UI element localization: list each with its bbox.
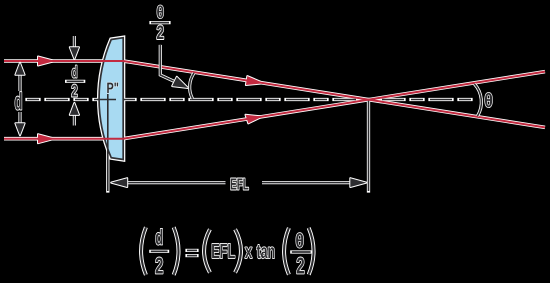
formula: EFL <box>211 240 235 263</box>
label d (of d/2 fraction) <box>71 64 77 82</box>
svg-text:2: 2 <box>156 22 164 44</box>
svg-text:θ: θ <box>484 90 493 112</box>
formula: fraction bar d/2 <box>151 250 168 253</box>
label 2 (of d/2 fraction) <box>71 81 77 100</box>
white halo layer (masked to outside of lens) <box>4 38 545 191</box>
formula: equals sign <box>187 250 197 255</box>
focal point drop line <box>368 101 370 192</box>
d dimension arrow down <box>15 112 24 135</box>
red arrowhead on top-left ray <box>38 57 55 66</box>
formula: d <box>155 226 163 250</box>
P'' label inside lens (no halo, on blue) <box>107 80 119 97</box>
svg-text:tan: tan <box>257 241 276 263</box>
svg-text:2: 2 <box>71 81 77 100</box>
red arrowhead on bottom refracted ray <box>246 115 263 124</box>
formula: right paren of (d/2) <box>174 227 179 275</box>
svg-text:x: x <box>245 241 252 263</box>
formula: left paren of (EFL) <box>204 229 210 272</box>
theta/2 label: 2 <box>156 22 164 44</box>
svg-text:EFL: EFL <box>230 176 249 193</box>
formula: left big paren <box>141 227 146 275</box>
theta/2 fraction bar <box>151 21 169 24</box>
halo: principal plane line <box>106 94 109 191</box>
d/2 dimension upper arrow (pointing down at top ray) <box>70 36 79 59</box>
d dimension arrow up <box>15 63 24 91</box>
halo: top ray <box>4 61 545 127</box>
formula: 2 <box>155 252 163 278</box>
svg-text:d: d <box>155 226 163 250</box>
svg-text:EFL: EFL <box>211 240 235 263</box>
red arrowhead on top refracted ray <box>246 76 264 85</box>
halo: optical axis <box>27 98 473 101</box>
svg-text:P": P" <box>107 80 119 97</box>
EFL dimension line left segment + left arrowhead <box>111 178 225 187</box>
EFL dimension line right segment + right arrowhead <box>262 178 366 187</box>
theta/2 top label: theta <box>157 2 165 22</box>
formula: x <box>245 241 252 263</box>
svg-text:d: d <box>71 64 77 82</box>
svg-text:2: 2 <box>155 252 163 278</box>
formula: tan <box>257 241 276 263</box>
halo: lens outline <box>99 38 123 160</box>
lens U1 (plano-convex, flat side right) <box>99 38 123 160</box>
formula: left paren of (theta/2) <box>284 228 289 275</box>
ray top (red) <box>4 61 545 127</box>
svg-text:d: d <box>14 89 22 116</box>
d/2 dimension lower arrow (pointing up at axis) <box>70 103 79 126</box>
theta/2 leader line with arrow <box>160 45 188 88</box>
red arrowhead on bottom-left ray <box>38 134 55 143</box>
fraction bar of d/2 <box>67 80 84 83</box>
formula: fraction bar theta/2 <box>292 250 311 253</box>
svg-text:θ: θ <box>157 2 165 22</box>
EFL label <box>230 176 249 193</box>
formula: right paren of (EFL) <box>235 229 241 272</box>
halo: bottom ray <box>4 72 545 139</box>
optical axis (dashed centerline) <box>27 99 473 101</box>
formula: right paren of (theta/2) <box>309 228 314 275</box>
theta angle arc at right <box>475 84 482 116</box>
principal plane line below P'' <box>107 94 109 191</box>
svg-text:2: 2 <box>296 252 304 278</box>
label d (left) <box>14 89 22 116</box>
theta label right <box>484 90 493 112</box>
ray bottom (red) <box>4 72 545 139</box>
formula: theta <box>295 231 304 253</box>
halo: focal drop line <box>367 101 370 192</box>
formula: 2 (theta/2) <box>296 252 304 278</box>
svg-text:θ: θ <box>295 231 304 253</box>
theta/2 angle arc near lens <box>190 73 194 99</box>
